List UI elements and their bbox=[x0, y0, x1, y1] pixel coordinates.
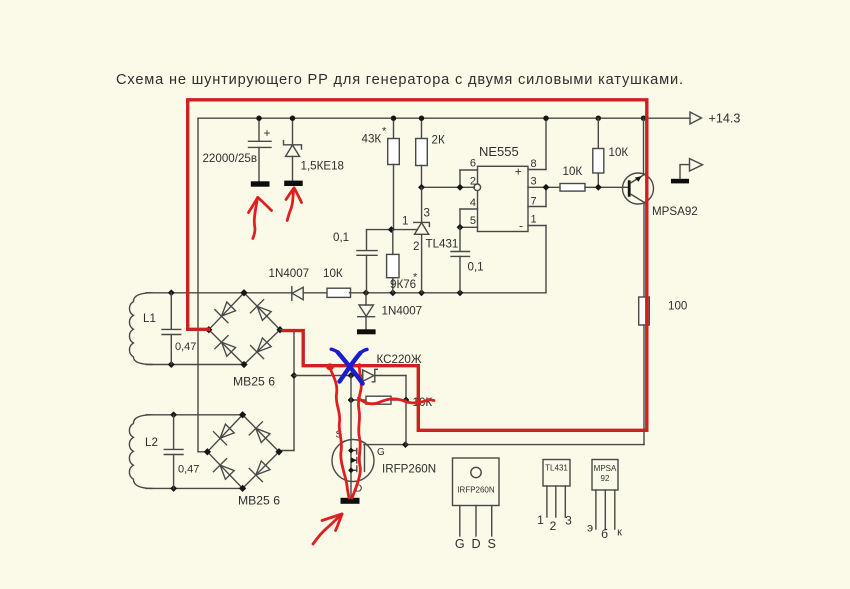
svg-text:MPSA: MPSA bbox=[594, 464, 617, 473]
svg-text:10К: 10К bbox=[323, 267, 343, 280]
diode 1N4007 series bbox=[291, 287, 293, 300]
svg-text:0,1: 0,1 bbox=[333, 231, 349, 244]
svg-text:+: + bbox=[515, 165, 522, 179]
svg-text:TL431: TL431 bbox=[545, 464, 568, 473]
svg-text:2: 2 bbox=[413, 240, 419, 253]
svg-text:+14.3: +14.3 bbox=[709, 112, 741, 126]
output arrow +14.3 bbox=[690, 112, 740, 126]
wire node to zener bbox=[294, 375, 363, 377]
wire zener down to gate bbox=[405, 376, 407, 445]
node TVS top rail bbox=[290, 116, 295, 121]
svg-text:1: 1 bbox=[402, 215, 408, 228]
wire L1 bottom bbox=[146, 364, 244, 366]
resistor 10K base pull-up bbox=[593, 118, 629, 191]
gate wire bottom bbox=[364, 444, 644, 446]
capacitor 0,1 left bbox=[333, 230, 377, 293]
svg-text:L1: L1 bbox=[143, 312, 156, 325]
svg-text:Схема не шунтирующего РР для г: Схема не шунтирующего РР для генератора … bbox=[116, 72, 683, 88]
node pin5 tie bbox=[457, 224, 464, 231]
wire L2 top bbox=[146, 414, 243, 416]
svg-text:S: S bbox=[487, 537, 495, 551]
MOSFET IRFP260N bbox=[332, 430, 436, 504]
resistor 10K series bbox=[327, 288, 351, 297]
pin 5 bbox=[460, 226, 478, 228]
pin 8 bbox=[528, 169, 546, 171]
node 43K top rail bbox=[391, 116, 396, 121]
node 2K/TL431 junction bbox=[418, 184, 425, 191]
pin 3 bbox=[528, 186, 560, 188]
svg-text:L2: L2 bbox=[145, 436, 158, 449]
svg-text:4: 4 bbox=[470, 197, 476, 209]
red arrow under TVS bbox=[287, 188, 294, 221]
node pin3 tie bbox=[543, 184, 550, 191]
red hand annotations bbox=[249, 188, 435, 544]
IC NE555 U1 bbox=[422, 118, 561, 293]
svg-text:МВ25 6: МВ25 6 bbox=[238, 494, 280, 508]
wire TL431 ref bbox=[367, 229, 418, 231]
red squiggle A down to mosfet ground bbox=[330, 368, 349, 498]
ground bar TVS bbox=[284, 181, 303, 186]
shunt reference TL431 bbox=[402, 187, 458, 292]
svg-text:0,1: 0,1 bbox=[468, 261, 484, 274]
capacitor 0,47 L1 bbox=[162, 293, 196, 365]
bridge rectifier MB25 6 #2 bbox=[204, 411, 283, 507]
svg-text:1,5КЕ18: 1,5КЕ18 bbox=[301, 160, 345, 173]
pin 6 bbox=[460, 169, 478, 171]
package IRFP260N pinout bbox=[453, 458, 500, 551]
svg-text:7: 7 bbox=[531, 196, 537, 208]
wire top rail bbox=[198, 117, 690, 119]
resistor 10K gate bbox=[348, 396, 433, 409]
wire source line bbox=[350, 376, 352, 440]
svg-text:100: 100 bbox=[668, 300, 687, 313]
ground bar shunt diode bbox=[357, 329, 376, 334]
svg-text:92: 92 bbox=[601, 474, 610, 483]
svg-text:-: - bbox=[519, 219, 523, 233]
svg-text:MPSA92: MPSA92 bbox=[652, 205, 698, 218]
svg-text:*: * bbox=[382, 126, 387, 138]
node 2K top rail bbox=[419, 116, 424, 121]
red squiggle over 10K gate bbox=[359, 398, 435, 404]
svg-text:10К: 10К bbox=[609, 146, 629, 159]
svg-text:D: D bbox=[471, 537, 480, 551]
capacitor 0,47 L2 bbox=[164, 415, 199, 489]
svg-text:+: + bbox=[264, 126, 271, 140]
red arrow at mosfet ground bbox=[313, 514, 342, 544]
svg-text:к: к bbox=[617, 527, 622, 539]
svg-text:б: б bbox=[601, 527, 608, 541]
svg-text:IRFP260N: IRFP260N bbox=[457, 486, 495, 495]
svg-text:1N4007: 1N4007 bbox=[382, 305, 423, 318]
resistor 100 bbox=[639, 297, 688, 445]
svg-text:1: 1 bbox=[537, 513, 544, 527]
red highlight trace bbox=[188, 100, 647, 431]
wire bridge1 left link bbox=[198, 329, 209, 331]
svg-text:3: 3 bbox=[424, 207, 430, 220]
svg-text:8: 8 bbox=[531, 158, 537, 170]
ground bar C1 bbox=[251, 181, 270, 186]
svg-text:2: 2 bbox=[550, 519, 557, 533]
node pin6 tie bbox=[457, 184, 464, 191]
red arrow under capacitor bbox=[253, 198, 258, 239]
capacitor 0,1 under NE555 bbox=[451, 227, 484, 292]
svg-text:43К: 43К bbox=[362, 133, 382, 146]
svg-text:22000/25в: 22000/25в bbox=[202, 152, 257, 165]
pin 2 bbox=[474, 184, 481, 191]
svg-text:0,47: 0,47 bbox=[178, 464, 199, 476]
TVS diode 1,5KE18 bbox=[284, 118, 345, 186]
svg-text:3: 3 bbox=[565, 514, 572, 528]
svg-text:1N4007: 1N4007 bbox=[269, 267, 310, 280]
svg-text:6: 6 bbox=[470, 158, 476, 170]
node emitter top rail bbox=[641, 116, 646, 121]
wire left bus bbox=[198, 118, 209, 452]
node 10K top rail bbox=[596, 116, 601, 121]
svg-text:NE555: NE555 bbox=[479, 144, 519, 159]
node pin8 top rail bbox=[543, 116, 548, 121]
wire bridge1 right to node bbox=[280, 330, 294, 451]
zener KC220Ж bbox=[363, 353, 422, 382]
coil L2 bbox=[129, 415, 158, 489]
svg-text:G: G bbox=[455, 537, 465, 551]
node C1 top rail bbox=[256, 116, 261, 121]
svg-text:IRFP260N: IRFP260N bbox=[382, 463, 436, 476]
capacitor C1 22000/25в bbox=[202, 118, 271, 187]
svg-text:0,47: 0,47 bbox=[175, 341, 196, 353]
pin 7 bbox=[528, 206, 546, 208]
wire L2 bottom bbox=[146, 487, 243, 489]
svg-text:G: G bbox=[377, 447, 385, 458]
svg-text:5: 5 bbox=[470, 215, 476, 227]
blue X deletion mark bbox=[331, 349, 367, 383]
transistor Q1 MPSA92 bbox=[623, 118, 698, 297]
spare output flag with ground bar bbox=[671, 159, 703, 184]
pin 1 bbox=[528, 225, 546, 227]
resistor 2K bbox=[416, 118, 445, 187]
svg-text:2: 2 bbox=[470, 176, 476, 188]
resistor 43K bbox=[362, 118, 400, 229]
red junction blob bbox=[326, 363, 334, 370]
resistor 9K76 bbox=[387, 230, 418, 293]
bridge rectifier MB25 6 #1 bbox=[205, 289, 284, 388]
pin 4 bbox=[460, 208, 478, 210]
mid rail wire with 1N4007 + 10K bbox=[146, 267, 546, 300]
diode 1N4007 shunt to ground bbox=[357, 293, 422, 335]
svg-text:МВ25 6: МВ25 6 bbox=[233, 375, 275, 389]
package TL431 pinout bbox=[537, 460, 572, 534]
svg-text:2К: 2К bbox=[432, 134, 445, 147]
svg-text:3: 3 bbox=[531, 176, 537, 188]
svg-text:TL431: TL431 bbox=[426, 238, 459, 251]
svg-text:1: 1 bbox=[531, 214, 537, 226]
svg-text:10К: 10К bbox=[563, 165, 583, 178]
resistor 10K output bbox=[560, 165, 628, 191]
svg-text:*: * bbox=[413, 272, 418, 284]
red squiggle B down to mosfet ground bbox=[352, 365, 361, 499]
svg-text:э: э bbox=[587, 521, 593, 535]
ground bar MOSFET drain bbox=[341, 498, 360, 504]
coil L1 bbox=[129, 293, 155, 365]
package MPSA92 pinout bbox=[587, 460, 622, 542]
